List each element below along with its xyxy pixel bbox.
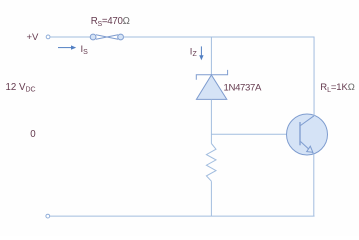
zener diode D1 cathode bar (bent ends): [196, 70, 227, 80]
resistor RS (bowtie style: two circles with crossing lines): [90, 34, 123, 40]
svg-text:0: 0: [30, 129, 36, 140]
wire from transistor emitter down to bottom-right corner: [313, 154, 315, 216]
bottom wire: [50, 215, 315, 217]
transistor Q1 base bar: [299, 122, 301, 145]
svg-text:RS=470Ω: RS=470Ω: [91, 16, 130, 28]
transistor Q1 collector diagonal: [301, 116, 315, 126]
transistor Q1 circle: [287, 114, 328, 155]
transistor Q1 emitter diagonal with arrowhead: [301, 142, 314, 154]
svg-text:1N4737A: 1N4737A: [224, 82, 263, 93]
zener diode D1 triangle (anode, pointing up): [196, 75, 226, 99]
wire from +V terminal to resistor RS: [50, 36, 90, 38]
wire from junction to transistor base: [211, 133, 286, 135]
svg-text:RL=1KΩ: RL=1KΩ: [320, 82, 354, 94]
terminal bottom-left (0 reference terminal): [46, 214, 50, 218]
svg-text:+V: +V: [27, 32, 40, 43]
arrow IZ (current direction arrow): [199, 46, 203, 60]
wire from resistor RS to top-right corner: [124, 36, 315, 38]
terminal +V (top-left input terminal): [46, 35, 50, 39]
wire right vertical: top corner down to transistor collector: [313, 37, 315, 117]
wire from zener anode down to junction: [210, 99, 212, 143]
wire from top wire down to zener cathode: [210, 37, 212, 75]
wire from zigzag resistor to bottom wire: [210, 181, 212, 216]
resistor (zigzag) below junction: [206, 144, 216, 182]
arrow IS (current direction arrow): [58, 45, 76, 49]
